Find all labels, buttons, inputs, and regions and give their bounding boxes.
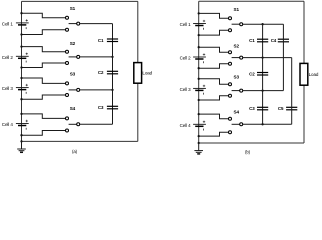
- wire: C4 column b: [282, 24, 284, 90]
- svg-text:C3: C3: [98, 105, 104, 110]
- battery Cell 3a: [16, 84, 29, 94]
- wire: left bus b: [198, 1, 200, 143]
- wire: node 1a from switch S1 pole: [80, 23, 113, 25]
- wire: node 3b from switch S3 pole: [243, 89, 284, 91]
- svg-text:(b): (b): [245, 149, 251, 154]
- svg-text:Cell 2: Cell 2: [2, 55, 14, 60]
- wire: top rail b: [199, 0, 304, 2]
- switch S2a: [66, 50, 80, 64]
- battery Cell 1b: [193, 20, 206, 30]
- capacitor C4b: [278, 39, 289, 42]
- svg-text:Cell 4: Cell 4: [2, 122, 14, 127]
- svg-text:S3: S3: [233, 75, 239, 80]
- svg-text:C1: C1: [98, 38, 104, 43]
- wire: cell 1b negative lead: [198, 30, 229, 36]
- wire: right bus b: [303, 1, 305, 143]
- svg-text:Cell 2: Cell 2: [180, 56, 192, 61]
- svg-text:S1: S1: [70, 6, 76, 11]
- svg-text:S4: S4: [70, 106, 76, 111]
- wire: cell 1a positive lead: [20, 12, 65, 18]
- svg-text:S3: S3: [70, 72, 76, 77]
- wire: right bus a: [137, 1, 139, 141]
- wire: capacitor column x=262.6 b: [262, 24, 264, 124]
- resistor Load a: [134, 63, 153, 84]
- svg-text:C2: C2: [249, 71, 255, 76]
- wire: node 4a from switch S4 pole: [80, 123, 113, 125]
- junction: bottom rail / ground b: [198, 142, 200, 144]
- wire: cell 2a negative lead: [20, 63, 65, 69]
- switch S4a: [66, 117, 80, 132]
- wire: cell 3b positive lead: [198, 78, 229, 85]
- capacitor C2b: [257, 73, 268, 76]
- svg-text:C1: C1: [249, 38, 255, 43]
- svg-text:Cell 1: Cell 1: [2, 21, 14, 26]
- wire: cell 3b negative lead: [198, 96, 229, 101]
- wire: cell 3a negative lead: [20, 95, 65, 100]
- wire: node 3a from switch S3 pole: [80, 89, 114, 91]
- wire: bottom rail a: [22, 140, 138, 142]
- svg-text:Cell 3: Cell 3: [180, 87, 192, 92]
- switch S3a: [66, 82, 80, 97]
- wire: cell 1b positive lead: [198, 12, 229, 18]
- switch S1a: [66, 16, 80, 31]
- svg-text:Cell 4: Cell 4: [180, 123, 192, 128]
- capacitor C3a: [107, 106, 118, 109]
- wire: left bus a: [21, 1, 23, 141]
- battery Cell 2a: [16, 53, 29, 63]
- battery Cell 3b: [193, 85, 206, 95]
- switch S1b: [229, 17, 243, 32]
- wire: top rail a: [22, 0, 138, 2]
- svg-text:S2: S2: [70, 41, 76, 46]
- wire: cell 2b negative lead: [198, 64, 229, 70]
- resistor Load b: [300, 63, 319, 85]
- wire: node 4b from switch S4 pole: [243, 123, 292, 125]
- battery Cell 4b: [193, 121, 206, 131]
- svg-text:Cell 3: Cell 3: [2, 86, 14, 91]
- svg-text:Load: Load: [309, 72, 319, 77]
- svg-text:S1: S1: [233, 7, 239, 12]
- svg-text:Load: Load: [142, 71, 152, 76]
- capacitor C5b: [286, 107, 297, 110]
- svg-text:C3: C3: [249, 106, 255, 111]
- wire: C5 column b: [291, 58, 293, 125]
- switch S3b: [229, 83, 243, 98]
- wire: bottom rail b: [199, 142, 304, 144]
- wire: cell 4b positive lead: [198, 113, 229, 119]
- wire: node 2a from switch S2 pole: [80, 56, 114, 58]
- ground a: [17, 141, 26, 152]
- wire: cell 4a positive lead: [20, 113, 65, 119]
- capacitor C1b: [257, 39, 268, 42]
- wire: cell 2a positive lead: [20, 45, 65, 51]
- wire: cell 3a positive lead: [20, 77, 65, 84]
- wire: cell 4b negative lead: [198, 132, 229, 137]
- capacitor C1a: [107, 39, 118, 42]
- wire: cell 2b positive lead: [198, 46, 229, 52]
- battery Cell 1a: [16, 19, 29, 29]
- ground b: [194, 143, 203, 154]
- junction: bottom rail / ground a: [20, 140, 22, 142]
- capacitor C3b: [257, 107, 268, 110]
- svg-text:C4: C4: [271, 38, 277, 43]
- wire: node 1b from switch S1 pole: [243, 23, 284, 25]
- wire: node 2b from switch S2 pole: [243, 56, 292, 58]
- svg-text:S2: S2: [233, 43, 239, 48]
- svg-text:S4: S4: [233, 109, 239, 114]
- wire: capacitor column x=112.5 a: [112, 24, 114, 125]
- svg-text:C5: C5: [278, 106, 284, 111]
- wire: cell 1a negative lead: [20, 30, 65, 36]
- switch S2b: [229, 51, 243, 65]
- svg-text:(a): (a): [72, 149, 78, 154]
- wire: cell 4a negative lead: [20, 131, 65, 137]
- battery Cell 2b: [193, 53, 206, 63]
- capacitor C2a: [107, 71, 118, 74]
- battery Cell 4a: [16, 120, 29, 130]
- svg-text:Cell 1: Cell 1: [180, 22, 192, 27]
- switch S4b: [229, 117, 243, 134]
- svg-text:C2: C2: [98, 70, 104, 75]
